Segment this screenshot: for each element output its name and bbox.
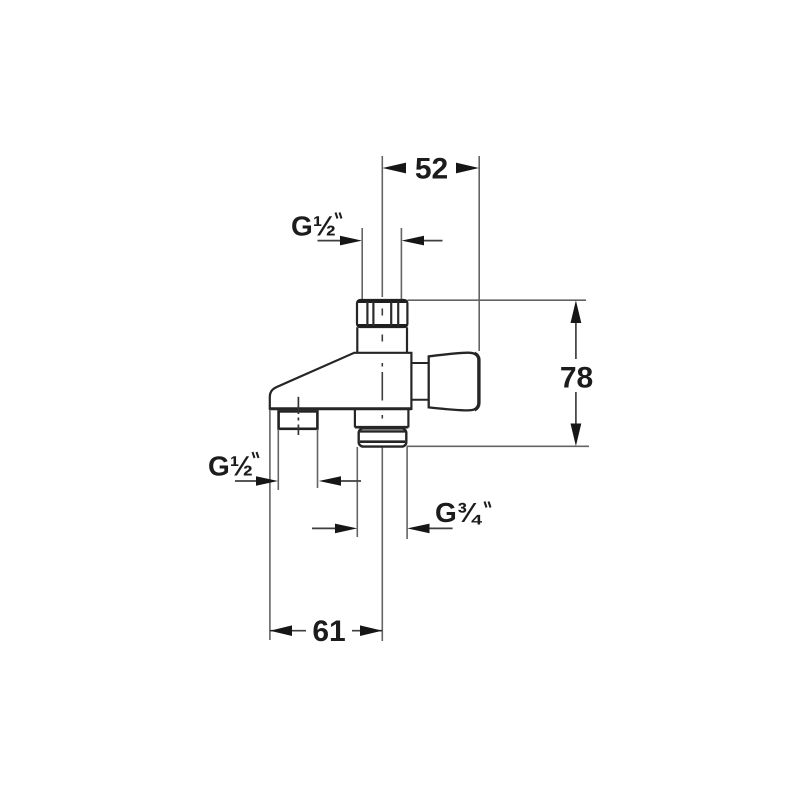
- label G1/2 top: [291, 211, 342, 242]
- extension line: 78 top (from nut top to right): [408, 299, 587, 301]
- spout outlet center mark: [297, 397, 299, 435]
- bottom outlet body: [355, 410, 409, 428]
- dimension 78 arrow down: [571, 424, 582, 447]
- dimension text 61: [312, 615, 345, 648]
- extension line: aerator left: [277, 429, 279, 490]
- tail line G3/4 left: [312, 527, 336, 529]
- svg-text:52: 52: [415, 153, 448, 186]
- svg-text:G½: G½: [291, 211, 336, 242]
- arrow G3/4 left (points right at x=357): [335, 524, 357, 534]
- svg-text:61: 61: [312, 615, 345, 648]
- arrow G1/2 bottom right (points left at x=318): [319, 476, 341, 486]
- handle knob: [429, 353, 479, 411]
- extension line: spout left edge down to 61: [269, 410, 271, 641]
- dimension 52 arrow right: [456, 163, 479, 174]
- dimension 78 arrow up: [571, 300, 582, 323]
- dimension 78 line: [575, 318, 577, 428]
- extension line: thread left x=362: [361, 228, 363, 299]
- dimension 61 arrow left: [270, 625, 292, 636]
- spout outlet (aerator): [279, 411, 318, 428]
- dimension 61 arrow right: [360, 625, 382, 636]
- extension line: outlet cap right: [406, 447, 408, 539]
- svg-text:G¾: G¾: [435, 497, 483, 528]
- bottom outlet threaded cap: [359, 428, 407, 446]
- arrow G3/4 right (points left at x=407): [407, 524, 429, 534]
- svg-text:78: 78: [560, 362, 593, 395]
- label G3/4: [435, 497, 491, 528]
- dimension 52 arrow left: [383, 163, 407, 174]
- extension line: outlet cap left: [356, 447, 358, 537]
- hex nut (top union nut): [357, 300, 407, 327]
- svg-text:G½: G½: [208, 451, 253, 482]
- dimension text 52: [415, 153, 448, 186]
- extension line: thread right x=401: [400, 228, 402, 299]
- tail line G1/2 top right: [424, 240, 443, 242]
- dimension text 78: [560, 362, 593, 395]
- leader line G1/2 bottom: [235, 480, 258, 482]
- arrow G1/2 top right (points left at x=401): [402, 236, 424, 246]
- extension line: 52 left / upper centerline: [381, 156, 383, 297]
- centerline vertical lower (to 61 dimension): [381, 447, 383, 641]
- valve upper body (below nut): [357, 327, 407, 352]
- arrow G1/2 top left (points right at x=362): [340, 236, 362, 246]
- extension line: aerator right: [317, 429, 319, 488]
- extension line: 52 right (knob outer edge): [478, 156, 480, 351]
- label G1/2 bottom: [208, 451, 259, 482]
- extension line: 78 bottom (from outlet cap to right): [407, 445, 590, 447]
- valve housing with spout (side profile): [270, 353, 412, 409]
- centerline vertical (dash-dot through valve): [381, 309, 383, 419]
- dimension 61 line: [270, 630, 382, 632]
- tail line G3/4 right: [430, 527, 453, 529]
- tail line G1/2 bottom right: [341, 480, 361, 482]
- arrow G1/2 bottom left (points right at x=278): [256, 476, 278, 486]
- dimension 61 white gap: [306, 618, 352, 644]
- leader line G1/2 top: [318, 240, 345, 242]
- handle stem: [411, 363, 428, 400]
